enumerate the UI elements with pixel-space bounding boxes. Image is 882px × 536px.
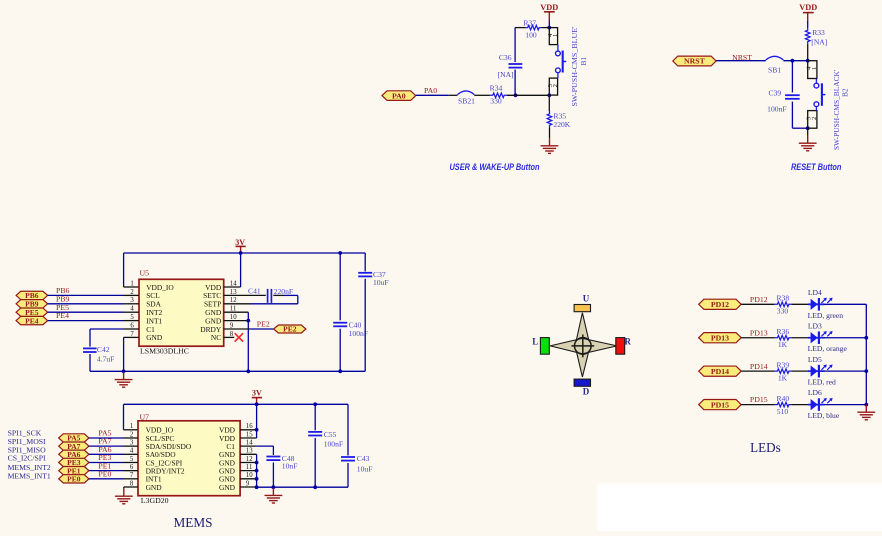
svg-text:RESET Button: RESET Button	[791, 162, 842, 172]
wire PE4 to U5	[48, 320, 124, 322]
caption USER & WAKE-UP Button	[450, 162, 540, 172]
wire PB6 to U5	[48, 294, 124, 296]
tag PE1	[59, 466, 89, 475]
svg-text:1: 1	[811, 67, 818, 70]
node junction LED rail row2	[864, 336, 868, 340]
svg-text:2: 2	[130, 289, 134, 296]
LED LD3 (LED, orange)	[808, 331, 833, 344]
net label PA5	[98, 429, 111, 438]
ground (reset)	[799, 136, 817, 151]
wire NRST tag to SB1	[716, 60, 766, 62]
tag PB9	[16, 300, 47, 309]
svg-text:6: 6	[130, 322, 134, 329]
svg-text:C43: C43	[357, 454, 370, 463]
ground (U7 C48)	[265, 488, 283, 503]
svg-text:GND: GND	[146, 483, 163, 492]
svg-text:1: 1	[130, 423, 133, 430]
wire R35 to ground	[549, 128, 551, 138]
svg-text:R33: R33	[812, 28, 825, 37]
svg-text:SW-PUSH-CMS_BLACK': SW-PUSH-CMS_BLACK'	[832, 69, 841, 150]
svg-text:10nF: 10nF	[282, 462, 298, 471]
wire R36 to LD3	[792, 337, 810, 339]
svg-text:D: D	[583, 387, 590, 397]
svg-text:7: 7	[130, 331, 134, 338]
wire U7 pin8 GND to ground	[124, 487, 138, 489]
wire switch to R35	[548, 95, 550, 111]
svg-text:MEMS: MEMS	[174, 515, 213, 530]
svg-text:1K: 1K	[778, 374, 788, 383]
wire C39 branch down	[791, 61, 793, 93]
svg-text:3: 3	[130, 297, 134, 304]
node junction 3V/rail	[239, 251, 243, 255]
label SW-PUSH-CMS_BLUE	[570, 26, 579, 107]
LED LD4 (LED, green)	[808, 298, 833, 311]
node junction at switch bottom	[547, 93, 551, 97]
net label PE5	[56, 303, 69, 312]
svg-text:R36: R36	[776, 327, 789, 336]
svg-text:1: 1	[552, 34, 559, 37]
wire C37 branch	[364, 253, 366, 271]
compass label L	[532, 336, 538, 346]
wire U5 pin9 DRDY to PE2	[224, 328, 274, 330]
svg-text:4: 4	[130, 448, 134, 455]
wire R37 left leg down to C36	[514, 28, 516, 62]
svg-text:CS_I2C/SPI: CS_I2C/SPI	[8, 454, 46, 463]
label LED, red	[808, 378, 836, 387]
node junction pin12	[255, 461, 259, 465]
pin names U5 right	[200, 283, 222, 342]
LED LD5 (LED, red)	[808, 364, 833, 377]
capacitor C41 220nF	[248, 287, 293, 303]
node junction R37/VDD/switch pin1-4	[547, 26, 551, 30]
tag PE5	[16, 308, 47, 317]
node junction LED rail row3	[864, 369, 868, 373]
resistor R35	[547, 111, 571, 129]
resistor R39 1K	[775, 360, 792, 382]
svg-text:510: 510	[777, 407, 789, 416]
svg-text:PD12: PD12	[711, 300, 729, 309]
wire R34 to switch	[507, 94, 549, 96]
svg-text:PE2: PE2	[257, 320, 270, 329]
svg-text:U5: U5	[140, 269, 150, 278]
capacitor C55 100nF	[308, 430, 343, 449]
svg-text:330: 330	[777, 307, 789, 316]
node junction pin10/GND vertical	[246, 319, 250, 323]
svg-text:PD12: PD12	[750, 295, 768, 304]
node junction C40/rail	[338, 251, 342, 255]
tag PA7	[59, 442, 89, 451]
capacitor C36 [NA]	[498, 53, 523, 79]
tag PD12	[699, 299, 742, 309]
wire R40 to LD6	[792, 404, 810, 406]
wire C55 to bottom rail	[314, 438, 316, 487]
svg-text:3V: 3V	[252, 389, 262, 398]
wire U5 left pin stubs	[124, 295, 140, 337]
svg-text:SB1: SB1	[768, 66, 781, 75]
wire 3V top rail (U7)	[124, 403, 349, 405]
label SW-PUSH-CMS_BLACK	[832, 69, 841, 150]
svg-text:5: 5	[130, 456, 134, 463]
wire U7 pin14 C1 to C48	[240, 446, 273, 455]
svg-text:PD13: PD13	[750, 328, 768, 337]
wire U7 pins16/15 VDD to rail	[240, 404, 257, 438]
tag PD13	[699, 333, 742, 343]
node junction pin16	[255, 428, 259, 432]
svg-text:U7: U7	[140, 412, 150, 421]
svg-text:[NA]: [NA]	[811, 37, 827, 46]
capacitor C43 10uF	[341, 454, 372, 473]
svg-text:3: 3	[130, 440, 134, 447]
net label NRST	[732, 53, 752, 62]
wire PD14 to R39	[741, 370, 775, 372]
svg-text:PD14: PD14	[711, 367, 729, 376]
pin names U7 left	[146, 426, 192, 492]
svg-text:GND: GND	[219, 483, 236, 492]
solder bridge SB1	[766, 56, 784, 74]
tag PE2	[274, 325, 306, 334]
svg-text:PD15: PD15	[750, 395, 768, 404]
net label PA6	[98, 445, 111, 454]
wire R39 to LD5	[792, 370, 810, 372]
tag PA0	[382, 91, 416, 101]
resistor R40 510	[775, 394, 792, 416]
wire U5 pin8 NC stub	[224, 336, 235, 338]
svg-text:3V: 3V	[235, 238, 245, 247]
tag PB6	[16, 291, 47, 300]
LED LD6 (LED, blue)	[808, 398, 833, 411]
pin numbers U7 left (1-8)	[130, 423, 134, 487]
label LD3	[808, 321, 822, 330]
wire R38 to LD4	[792, 303, 810, 305]
capacitor C40 100nF	[333, 320, 368, 338]
svg-text:6: 6	[130, 464, 134, 471]
node junction rail/C55	[313, 402, 317, 406]
caption MEMS	[174, 515, 213, 530]
tag PA6	[59, 450, 89, 459]
svg-text:LED, blue: LED, blue	[808, 411, 840, 420]
svg-text:PD13: PD13	[711, 333, 729, 342]
svg-text:220nF: 220nF	[274, 287, 293, 296]
wire SB1 to switch	[783, 60, 807, 62]
svg-text:C41: C41	[248, 287, 261, 296]
svg-text:PE4: PE4	[25, 316, 39, 325]
svg-text:B1: B1	[579, 57, 588, 66]
capacitor C37 10uF	[358, 270, 388, 287]
label LED, blue	[808, 411, 840, 420]
power symbol 3V (U7)	[252, 389, 262, 405]
svg-text:LED, green: LED, green	[808, 311, 844, 320]
caption LEDs	[750, 440, 781, 455]
svg-text:LD5: LD5	[808, 355, 822, 364]
tag PD15	[699, 399, 742, 409]
svg-text:5: 5	[130, 314, 134, 321]
pin numbers U5 right (14-8)	[230, 280, 237, 337]
wire LED ground rail vertical	[865, 304, 867, 404]
capacitor C42 4.7uF	[83, 345, 114, 363]
svg-text:R37: R37	[523, 19, 536, 28]
wire C40 to bottom rail	[339, 329, 341, 372]
compass label D	[583, 387, 590, 397]
svg-text:PE2: PE2	[283, 325, 297, 334]
wire C41 loop to U5 pin12 SETP	[224, 295, 298, 303]
wire U5 pin11 GND down	[224, 312, 249, 371]
node junction pin10	[255, 477, 259, 481]
svg-text:10uF: 10uF	[373, 278, 389, 287]
capacitor C48 10nF	[266, 454, 297, 470]
capacitor C39 100nF	[767, 88, 800, 113]
wire C37 to bottom rail	[364, 279, 366, 372]
pin numbers U5 left (1-7)	[130, 280, 134, 337]
node junction pin11	[255, 469, 259, 473]
wire C43 branch	[347, 404, 349, 455]
wire PA5 to U7	[89, 437, 124, 439]
svg-text:4.7uF: 4.7uF	[97, 355, 115, 364]
wire PE5 to U5	[48, 311, 124, 313]
compass R block (red)	[616, 338, 625, 355]
white page corner (bottom-right)	[598, 484, 882, 536]
wire C43 to bottom rail	[347, 463, 349, 487]
solder bridge SB21	[458, 91, 476, 106]
wire LD3 to ground rail	[824, 337, 866, 339]
label LD4	[808, 288, 822, 297]
svg-text:R38: R38	[776, 294, 789, 303]
wire R33 to switch junction	[807, 44, 809, 60]
wire C55 branch	[314, 404, 316, 430]
net label PD15	[750, 395, 768, 404]
net label PE1	[98, 461, 111, 470]
tag PE4	[16, 316, 47, 325]
tag PD14	[699, 366, 742, 376]
svg-text:LD3: LD3	[808, 321, 822, 330]
wire C39 to bottom junction	[792, 102, 807, 129]
wire U5 pin13 SETC to C41	[224, 294, 266, 296]
wire LD5 to ground rail	[824, 370, 866, 372]
svg-text:LD6: LD6	[808, 388, 822, 397]
compass D block (blue)	[574, 379, 590, 386]
svg-text:R39: R39	[776, 360, 789, 369]
node junction pin9/rail	[255, 485, 259, 489]
node junction C55/rail	[313, 485, 317, 489]
resistor R37	[515, 19, 549, 40]
svg-text:L3GD20: L3GD20	[141, 496, 169, 505]
wire ground rail (U5)	[90, 370, 365, 372]
tag PE0	[59, 475, 89, 484]
chip U7 body	[138, 421, 240, 496]
svg-text:1K: 1K	[778, 340, 788, 349]
label B1	[579, 57, 588, 66]
svg-text:R: R	[625, 336, 632, 346]
node junction C40/bottom rail	[338, 369, 342, 373]
svg-text:GND: GND	[146, 333, 163, 342]
compass label U	[583, 294, 590, 304]
svg-text:LEDs: LEDs	[750, 440, 781, 455]
svg-text:USER & WAKE-UP Button: USER & WAKE-UP Button	[450, 162, 540, 172]
svg-text:100: 100	[525, 31, 537, 40]
svg-text:PE0: PE0	[67, 475, 81, 484]
power symbol VDD (reset)	[799, 3, 817, 20]
net label PB9	[56, 294, 70, 303]
pin names U5 left	[146, 283, 174, 342]
node junction switch top (reset)	[806, 59, 810, 63]
svg-text:VDD: VDD	[540, 3, 558, 12]
svg-text:PE0: PE0	[98, 469, 111, 478]
net names SPI1_SCK..MEMS_INT1	[8, 429, 51, 481]
svg-text:PE4: PE4	[56, 311, 69, 320]
svg-text:4: 4	[130, 306, 134, 313]
reference U5	[140, 269, 150, 278]
label LD5	[808, 355, 822, 364]
svg-text:LSM303DLHC: LSM303DLHC	[140, 347, 189, 356]
svg-text:PA0: PA0	[424, 86, 437, 95]
svg-text:LED, red: LED, red	[808, 378, 836, 387]
svg-text:U: U	[583, 294, 590, 304]
push-button B1 SW-PUSH-CMS_BLUE	[547, 28, 566, 96]
wire rail down to U7 pin1	[124, 404, 139, 430]
wire PA7 to U7	[89, 445, 124, 447]
svg-text:1: 1	[130, 280, 133, 287]
wire PE1 to U7	[89, 470, 124, 472]
chip U5 body	[139, 279, 224, 346]
wire PB9 to U5	[48, 303, 124, 305]
svg-text:C40: C40	[349, 320, 362, 329]
wire rail down to U5 pin1	[124, 253, 139, 287]
wire LD4 to ground rail	[824, 303, 866, 305]
wire C48 to bottom rail	[272, 463, 274, 488]
resistor R33 [NA]	[805, 27, 827, 46]
caption RESET Button	[791, 162, 842, 172]
node junction switch bottom (reset)	[806, 126, 810, 130]
svg-text:R34: R34	[490, 83, 503, 92]
ground (U5)	[115, 372, 133, 387]
svg-text:2: 2	[552, 84, 559, 87]
svg-text:MEMS_INT1: MEMS_INT1	[8, 471, 51, 480]
net label PE2	[257, 320, 270, 329]
wire C42 to bottom rail	[89, 354, 91, 371]
wire ground rail (U7)	[257, 486, 348, 488]
label LED, green	[808, 311, 844, 320]
ground (LEDs)	[857, 405, 875, 420]
resistor R36 1K	[775, 327, 792, 349]
net label PE0	[98, 469, 111, 478]
wire U7 GND pins vertical	[240, 454, 257, 487]
push-button B2 SW-PUSH-CMS_BLACK	[806, 61, 826, 129]
svg-text:100nF: 100nF	[324, 440, 343, 449]
svg-text:C39: C39	[769, 88, 782, 97]
svg-text:7: 7	[130, 472, 134, 479]
svg-text:2: 2	[130, 431, 134, 438]
pin names U7 right	[219, 426, 236, 492]
tag PA5	[59, 434, 89, 443]
pin numbers U7 right (16-9)	[246, 423, 253, 487]
svg-text:LD4: LD4	[808, 288, 822, 297]
svg-text:C42: C42	[97, 345, 110, 354]
compass L block (green)	[540, 338, 549, 355]
net label PA0	[424, 86, 437, 95]
svg-text:NC: NC	[211, 333, 221, 342]
net label PD12	[750, 295, 768, 304]
svg-text:PA0: PA0	[392, 91, 406, 100]
svg-text:SW-PUSH-CMS_BLUE': SW-PUSH-CMS_BLUE'	[570, 26, 579, 107]
wire C40 branch	[339, 253, 341, 320]
svg-text:2: 2	[811, 117, 818, 120]
wire LD6 to ground rail	[824, 404, 866, 406]
node junction LED rail row4	[864, 403, 868, 407]
wire PD12 to R38	[741, 303, 775, 305]
svg-text:100nF: 100nF	[767, 104, 786, 113]
net label PB6	[56, 286, 70, 295]
tag PE3	[59, 458, 89, 467]
node junction GND vertical/bottom rail	[246, 369, 250, 373]
svg-text:LED, orange: LED, orange	[808, 344, 848, 353]
net label PA7	[98, 437, 111, 446]
svg-text:NRST: NRST	[684, 57, 706, 66]
wire 3V top rail (U5)	[124, 252, 366, 254]
wire VDD to R33	[807, 20, 809, 27]
node junction 3V rail/VDD branch	[255, 402, 259, 406]
node junction C39 top	[791, 59, 795, 63]
wire PD13 to R36	[741, 337, 775, 339]
compass U block (orange)	[574, 305, 590, 312]
node junction pin7/rail	[122, 369, 126, 373]
svg-text:10uF: 10uF	[357, 464, 373, 473]
label LED, orange	[808, 344, 848, 353]
compass star	[550, 313, 617, 377]
svg-text:PD14: PD14	[750, 362, 768, 371]
wire U5 pin10 GND stub	[224, 320, 249, 322]
reference U7	[140, 412, 150, 421]
svg-text:L: L	[532, 336, 538, 346]
net label PE3	[98, 453, 111, 462]
wire PD15 to R40	[741, 404, 775, 406]
wire switch to ground (reset)	[807, 128, 809, 135]
power symbol 3V (U5)	[235, 238, 245, 253]
net label PE4	[56, 311, 69, 320]
svg-text:R40: R40	[776, 394, 789, 403]
compass label R	[625, 336, 632, 346]
svg-text:[NA]: [NA]	[498, 70, 514, 79]
tag NRST	[673, 56, 716, 66]
wire U5 pin14 to 3V	[224, 253, 241, 287]
node junction C48/rail	[272, 485, 276, 489]
wire PE0 to U7	[89, 478, 124, 480]
node junction C36/R34/switch pin3-2	[514, 93, 518, 97]
wire PA6 to U7	[89, 453, 124, 455]
svg-text:B2: B2	[841, 88, 850, 97]
net label PD13	[750, 328, 768, 337]
label LD6	[808, 388, 822, 397]
wire U5 pin7 GND down	[123, 337, 125, 371]
svg-text:VDD: VDD	[799, 3, 817, 12]
resistor R34	[474, 83, 507, 105]
svg-text:220K: 220K	[553, 120, 570, 129]
svg-text:C36: C36	[499, 53, 512, 62]
wire PE3 to U7	[89, 461, 124, 463]
wire VDD to switch junction	[548, 21, 550, 28]
power symbol VDD (user button)	[540, 3, 558, 21]
ground (U7 pin8)	[115, 489, 133, 504]
wire U7 left pin stubs	[124, 438, 139, 479]
wire U5 pin6 C1 to C42	[90, 329, 124, 347]
svg-text:PD15: PD15	[711, 400, 729, 409]
net label PD14	[750, 362, 768, 371]
svg-text:330: 330	[490, 97, 502, 106]
no-connect X on pin 8	[235, 333, 243, 341]
label B2	[841, 88, 850, 97]
svg-text:SB21: SB21	[458, 97, 475, 106]
ground (user button)	[541, 138, 559, 153]
value LSM303DLHC	[140, 347, 189, 356]
wire PA0 tag to SB21	[416, 94, 458, 96]
